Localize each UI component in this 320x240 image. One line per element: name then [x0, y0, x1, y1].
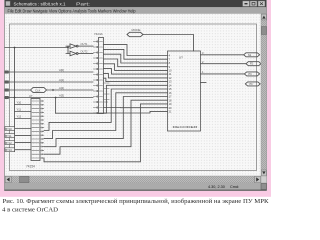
decoder U4 74154 [31, 99, 40, 161]
svg-text:7424A: 7424A [94, 32, 103, 36]
wire fan w4 [104, 59, 168, 67]
wire run4 [44, 97, 168, 147]
page background [0, 0, 271, 219]
inverter U2B bubble [76, 53, 78, 55]
svg-text:OUT2: OUT2 [81, 49, 88, 53]
wire U4 in7 [15, 149, 32, 151]
vertical scrollbar [261, 14, 267, 176]
wire pin15 [104, 107, 168, 109]
pink figure background [0, 0, 271, 197]
left tag a0 [5, 71, 9, 74]
wire out1 [201, 54, 244, 56]
node C junction [52, 89, 54, 91]
svg-text:BY13: BY13 [5, 148, 12, 152]
svg-text:DECODER: DECODER [173, 125, 199, 129]
edge tag t4 [5, 148, 15, 152]
svg-text:Part:: Part: [76, 1, 90, 6]
edge tag t3 [5, 141, 15, 145]
wire out2 [201, 63, 247, 65]
U3 input bubbles [97, 41, 98, 114]
port P4 [245, 82, 260, 86]
svg-text:U?: U? [179, 56, 183, 60]
U4 internal ticks [32, 101, 39, 158]
svg-text:File Edit Draw Navigate View O: File Edit Draw Navigate View Options Ana… [8, 8, 137, 13]
wire A1 [5, 81, 93, 83]
svg-text:OUT1: OUT1 [81, 42, 88, 46]
svg-text:BY10: BY10 [5, 127, 12, 131]
wire run1 [56, 85, 168, 113]
wire U4 in3 [15, 118, 32, 120]
inverter U2B output wire [78, 53, 93, 55]
wire top-left horizontal [5, 47, 68, 49]
U1 left pin numbers [169, 54, 172, 114]
svg-text:Y11: Y11 [17, 108, 22, 112]
wire U4 in5 [15, 135, 32, 137]
node E junction [55, 97, 57, 99]
wire fan w2 [104, 49, 168, 59]
port labels right [248, 54, 254, 86]
inverter U2A bubble [76, 45, 78, 47]
inverter U2A [70, 44, 76, 49]
node A junction [14, 47, 16, 49]
buffer column U3 74240 [99, 38, 104, 114]
svg-text:Cmd:: Cmd: [230, 185, 239, 189]
svg-text:CLK: CLK [35, 88, 41, 92]
wire run6 [44, 104, 168, 162]
decoder U1 [168, 51, 201, 131]
left tag a2 [5, 89, 9, 92]
svg-text:A[1]: A[1] [59, 78, 64, 82]
wire fan w8 [104, 78, 168, 81]
node B junction [67, 47, 69, 49]
inverter U2A output wire [78, 45, 93, 47]
edge tag t1 [5, 127, 15, 131]
wire run5 [44, 100, 168, 154]
port N1 [244, 53, 260, 57]
wire run3 [44, 93, 168, 139]
wire out4 stub [201, 82, 207, 84]
svg-text:Schematics : s8bit.sch x.1: Schematics : s8bit.sch x.1 [14, 1, 66, 6]
horizontal scrollbar [5, 176, 267, 183]
port P3 [244, 72, 259, 76]
svg-text:74154: 74154 [26, 165, 35, 169]
wire fan w1 [104, 45, 168, 56]
gate input stubs [66, 46, 70, 53]
wire fan w5 [104, 64, 168, 71]
wire vertical from node A [14, 48, 16, 152]
wire A3 [5, 97, 93, 99]
wire A3 drop [55, 98, 57, 114]
U3 right lower stubs [104, 83, 110, 102]
port CLK [31, 88, 47, 93]
port P2 [246, 62, 261, 66]
svg-text:Y12: Y12 [17, 115, 22, 119]
wire fan w6 [104, 69, 168, 75]
svg-text:4 в системе OrCAD: 4 в системе OrCAD [2, 206, 58, 213]
status bar [5, 183, 267, 190]
wire U4 in2 [15, 111, 32, 113]
left tag a3 [5, 96, 9, 99]
wire U4 in1 [15, 104, 32, 106]
left tag a1 [5, 81, 9, 84]
inverter U2B [70, 51, 76, 56]
menu bar [5, 7, 266, 14]
svg-text:MODE: MODE [132, 28, 141, 32]
U3 internal ticks [99, 42, 102, 114]
wire U4 in6 [15, 142, 32, 144]
application window frame [5, 0, 267, 191]
U4 right pin stubs [40, 101, 44, 158]
wire out3 [201, 73, 245, 75]
port MODE [127, 32, 143, 36]
svg-text:U?: U? [29, 94, 33, 98]
svg-text:Y10: Y10 [17, 101, 22, 105]
svg-text:4.30, 2.30: 4.30, 2.30 [208, 185, 225, 189]
U1 right pin numbers [202, 51, 204, 74]
wire A2 [5, 89, 93, 91]
edge tag t2 [5, 134, 15, 138]
wire pin16 [104, 111, 168, 113]
U3 left stubs [93, 42, 99, 114]
U4 output triangles [42, 100, 44, 159]
wire A0 [5, 71, 93, 73]
svg-text:A[3]: A[3] [59, 93, 64, 97]
wire U4 in4 [15, 128, 32, 130]
svg-text:Рис. 10. Фрагмент схемы электр: Рис. 10. Фрагмент схемы электрической пр… [3, 198, 270, 205]
wire gate feed vertical [67, 46, 69, 53]
svg-text:BY11: BY11 [5, 134, 12, 138]
window bottom border [5, 190, 267, 191]
svg-text:A[2]: A[2] [59, 86, 64, 90]
title bar [5, 0, 266, 7]
svg-text:BY12: BY12 [5, 141, 12, 145]
wire fan w3 [104, 54, 168, 63]
svg-text:A[0]: A[0] [59, 68, 64, 72]
sheet border [10, 24, 257, 171]
wire run2 [44, 89, 168, 131]
wire fan w7 [104, 73, 168, 78]
node D junction [14, 97, 16, 99]
wire MODE net [143, 35, 194, 52]
